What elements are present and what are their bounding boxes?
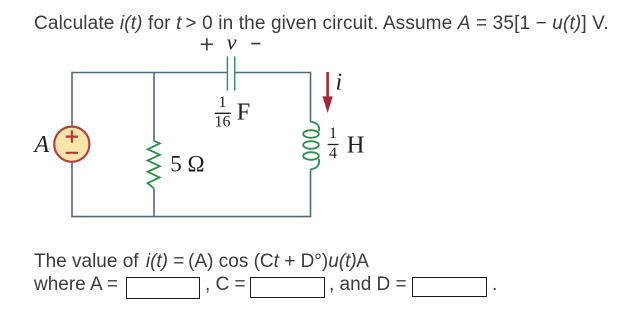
wire right lower — [310, 169, 312, 216]
bottom line 1 — [34, 252, 369, 271]
inductor L — [303, 122, 319, 170]
svg-text:5 Ω: 5 Ω — [170, 151, 204, 176]
svg-text:F: F — [237, 99, 251, 126]
bottom line 2 — [34, 275, 123, 294]
capacitor C — [227, 56, 234, 90]
svg-text:1: 1 — [219, 94, 227, 111]
wire top-left segment — [72, 72, 227, 74]
svg-text:H: H — [347, 131, 365, 158]
wire bottom — [71, 216, 311, 218]
svg-text:v: v — [227, 29, 237, 54]
svg-text:i: i — [336, 70, 343, 96]
resistor 5 ohm — [148, 141, 160, 189]
capacitor polarity labels + v - — [201, 29, 261, 54]
wire right upper — [310, 72, 312, 122]
capacitor value 1/16 F — [215, 94, 251, 131]
title line — [34, 14, 609, 33]
current arrow i — [323, 72, 333, 113]
label A — [33, 132, 50, 158]
resistor label 5 ohm — [170, 151, 204, 176]
label i — [336, 70, 343, 96]
answer box A — [126, 277, 200, 299]
wire left upper — [71, 72, 73, 127]
svg-text:4: 4 — [329, 145, 337, 162]
svg-text:1: 1 — [329, 125, 337, 142]
answer box C — [250, 277, 325, 298]
voltage source A — [54, 127, 89, 162]
wire middle upper — [153, 73, 155, 141]
wire middle lower — [153, 189, 155, 217]
wire top-right segment — [235, 72, 311, 74]
wire left lower — [71, 162, 73, 216]
inductor value 1/4 H — [328, 125, 365, 162]
svg-text:A: A — [33, 132, 50, 158]
answer box D — [412, 277, 487, 297]
svg-text:16: 16 — [215, 114, 231, 131]
